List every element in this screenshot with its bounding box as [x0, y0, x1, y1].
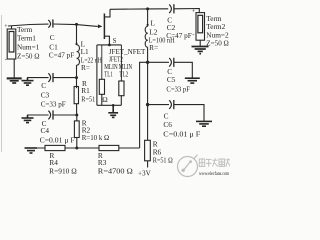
node C1/L1 junction: [75, 23, 78, 26]
resistor R1: [74, 87, 78, 104]
node bottom rail junction: [75, 147, 78, 150]
svg-text:www.elecfans.com: www.elecfans.com: [199, 172, 229, 177]
svg-text:Z=50 Ω: Z=50 Ω: [17, 52, 40, 61]
svg-text:R=51: R=51: [81, 95, 95, 104]
svg-text:C=0.01 μ F: C=0.01 μ F: [40, 135, 75, 144]
wire C2 to Term2: [174, 9, 199, 13]
svg-text:R=910 Ω: R=910 Ω: [49, 167, 77, 176]
svg-text:C: C: [50, 33, 55, 42]
ground C4: [22, 115, 34, 123]
svg-text:-: -: [5, 56, 7, 63]
capacitor C3: [48, 73, 50, 82]
transistor JFET2 gate arrow: [98, 24, 103, 28]
MLIN box bottom edge: [97, 104, 121, 106]
scan edge artifact left: [1, 15, 3, 152]
wire L1 to R1: [76, 78, 78, 89]
riser to L2 node: [140, 62, 148, 148]
microstrip TL2: [120, 45, 122, 81]
node C3 junction: [75, 76, 78, 79]
node top rail junction: [146, 7, 149, 10]
MLIN box left edge: [96, 45, 98, 105]
svg-text:R=51 Ω: R=51 Ω: [153, 156, 173, 165]
transistor JFET2 drain lead: [105, 9, 110, 17]
MLIN box top bar: [97, 44, 122, 46]
svg-text:L: L: [151, 18, 156, 27]
node L2 bottom junction: [146, 61, 149, 64]
svg-text:+: +: [4, 24, 8, 30]
svg-text:Term: Term: [17, 25, 33, 34]
svg-text:C4: C4: [41, 126, 50, 135]
inductor L2: [145, 26, 148, 47]
svg-text:C=33 pF: C=33 pF: [41, 100, 66, 109]
node C4 junction: [75, 114, 78, 117]
svg-text:C: C: [41, 81, 46, 90]
svg-text:C=47 pF: C=47 pF: [166, 31, 192, 40]
ground bottom-left: [25, 148, 38, 153]
node C6 junction: [146, 103, 149, 106]
wire gate run right of C1: [53, 24, 98, 26]
svg-text:Num=1: Num=1: [17, 43, 40, 52]
resistor R6: [147, 105, 149, 141]
ground Term2: [192, 47, 209, 54]
svg-text:R=4700 Ω: R=4700 Ω: [98, 167, 134, 176]
wire node to C6: [147, 62, 149, 104]
svg-text:C=0.01 μ F: C=0.01 μ F: [163, 129, 200, 138]
capacitor C2: [169, 5, 171, 14]
svg-text:+3V: +3V: [138, 170, 152, 178]
resistor R3: [99, 145, 119, 150]
svg-text:R=: R=: [149, 43, 158, 52]
right column top: [147, 9, 149, 26]
svg-text:TL2: TL2: [119, 70, 128, 79]
ground MLIN: [108, 105, 118, 117]
Term1 symbol: [11, 26, 13, 29]
svg-text:C5: C5: [167, 75, 176, 84]
svg-text:-: -: [192, 31, 194, 38]
svg-text:Term1: Term1: [17, 34, 36, 43]
resistor R4: [45, 145, 65, 150]
ground C3: [22, 78, 34, 86]
wire C4 branch: [53, 114, 77, 116]
svg-text:R=: R=: [81, 63, 90, 72]
svg-text:+: +: [192, 8, 196, 15]
Term2 symbol: [196, 13, 205, 41]
wire node to C5: [148, 61, 169, 63]
capacitor C5: [169, 58, 171, 67]
ground C5: [185, 78, 200, 83]
top rail: [110, 8, 168, 11]
capacitor C1: [48, 20, 50, 28]
bottom rail: [25, 147, 45, 149]
wire gate run left of C1: [8, 24, 49, 26]
svg-text:Z=50 Ω: Z=50 Ω: [206, 38, 229, 47]
svg-text:S: S: [113, 38, 117, 45]
svg-text:C=33 pF: C=33 pF: [166, 84, 190, 93]
inductor L1: [77, 45, 80, 65]
svg-text:C3: C3: [41, 90, 50, 99]
watermark CJK-like glyphs: [199, 158, 230, 167]
svg-text:C6: C6: [163, 120, 172, 129]
ground C6: [196, 121, 212, 126]
svg-text:TL1: TL1: [104, 70, 113, 79]
node source junction: [108, 44, 111, 47]
wire C3 branch: [53, 77, 77, 79]
node MLIN ground junction: [112, 104, 115, 107]
node L2 pin dot: [147, 24, 149, 26]
watermark logo circle: [178, 157, 198, 177]
capacitor C4: [48, 111, 50, 120]
svg-text:R=10 k Ω: R=10 k Ω: [82, 133, 110, 142]
microstrip TL1: [101, 45, 103, 79]
node L1 top column: [76, 24, 78, 44]
transistor JFET2 source lead: [105, 36, 110, 45]
capacitor C6: [169, 100, 171, 109]
resistor R2: [76, 115, 78, 121]
transistor JFET2 channel bar: [103, 14, 105, 40]
ground Term1: [7, 78, 22, 83]
node L1 pin dot: [75, 43, 77, 45]
svg-text:C=47 pF: C=47 pF: [49, 51, 75, 60]
svg-text:Ω: Ω: [102, 95, 108, 104]
